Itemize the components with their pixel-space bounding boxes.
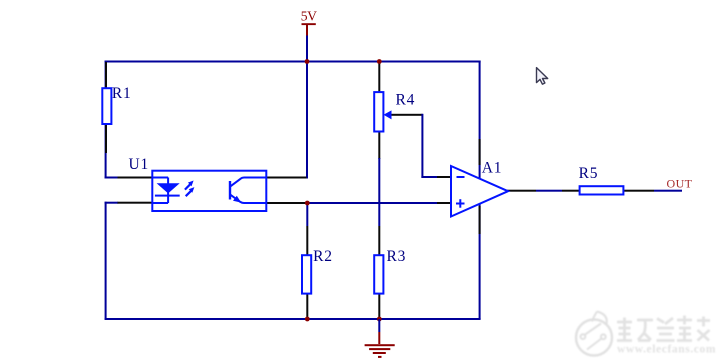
junction dot at 5V / top rail: [305, 59, 310, 64]
svg-text:5V: 5V: [301, 9, 317, 24]
watermark logo circle: [576, 312, 612, 356]
wire minus input horizontal: [421, 176, 437, 178]
resistor R1: [102, 88, 111, 124]
wire 5V stem blue: [306, 36, 308, 62]
pin U1 collector (pin4): [266, 177, 307, 179]
svg-text:R1: R1: [112, 85, 132, 102]
wire left vertical lower (U1 pin2 to bottom rail): [105, 202, 107, 320]
pin op-amp output: [507, 190, 536, 192]
pin R3 top: [378, 226, 380, 256]
wire U1 pin1 horizontal stub: [105, 177, 119, 179]
resistor R3: [374, 255, 383, 293]
ground bar 4: [378, 356, 382, 358]
op-amp minus sign: [457, 176, 465, 178]
watermark logo trace down: [587, 339, 602, 350]
LED light arrow 1: [185, 181, 194, 190]
svg-text:R5: R5: [579, 165, 599, 182]
pin U1 anode (pin1): [118, 177, 154, 179]
mouse cursor: [537, 68, 548, 85]
watermark logo node left: [581, 334, 586, 339]
pin op-amp V+ (top power pin): [479, 139, 481, 165]
pin op-amp V- (bottom power pin): [479, 206, 481, 234]
watermark logo leaf: [592, 312, 607, 325]
ground bar 2: [369, 348, 390, 350]
svg-text:R2: R2: [313, 248, 333, 265]
wire left vertical upper (top rail to R1): [105, 61, 107, 179]
power 5V stem red: [306, 25, 308, 36]
wire 5V column down to U1 collector: [306, 61, 308, 179]
svg-text:OUT: OUT: [667, 177, 693, 191]
pin R4 top: [378, 62, 380, 93]
ground bar 1: [365, 344, 395, 346]
wire output to R5: [536, 190, 562, 192]
wire plus-input net horizontal: [307, 202, 437, 204]
wire top horizontal: [105, 61, 481, 63]
LED light arrow 2: [186, 187, 195, 196]
wiper arrow of R4: [384, 110, 392, 119]
wire U1 pin2 horizontal stub: [105, 202, 119, 204]
LED triangle: [157, 183, 180, 193]
pin R2 top: [306, 226, 308, 256]
svg-text:R4: R4: [396, 92, 416, 109]
pin R1 top: [105, 62, 107, 89]
phototransistor base bar: [229, 181, 231, 200]
power 5V bar: [302, 23, 316, 25]
wire R5 to OUT: [654, 190, 682, 192]
pin R2 bottom: [306, 293, 308, 319]
LED anode lead: [152, 178, 168, 204]
svg-text:U1: U1: [129, 156, 150, 173]
wire R2 top from junction: [306, 203, 308, 226]
resistor R2: [302, 255, 311, 293]
junction dot at R4 / top rail: [377, 59, 382, 64]
wire R4 to R3 vertical: [378, 158, 380, 226]
op-amp A1 triangle: [451, 166, 508, 217]
watermark logo node right: [601, 334, 606, 339]
wire right vertical (op-amp supply column): [479, 61, 481, 320]
pin R5 left: [562, 190, 580, 192]
pin op-amp minus stub: [437, 176, 452, 178]
pin R3 bottom: [378, 293, 380, 319]
watermark chinese characters: [617, 316, 710, 341]
resistor R5: [580, 186, 624, 194]
watermark logo trace up: [585, 324, 602, 335]
pin R5 right: [623, 190, 654, 192]
ground bar 3: [373, 352, 386, 354]
pin U1 emitter (pin3): [266, 202, 307, 204]
phototransistor emitter: [230, 194, 266, 203]
junction dot at emitter / plus net: [305, 201, 310, 206]
LED cathode bar: [155, 195, 180, 197]
wire bottom horizontal: [105, 318, 481, 320]
svg-text:R3: R3: [387, 248, 407, 265]
svg-text:www.elecfans.com: www.elecfans.com: [617, 344, 716, 356]
resistor R4 (pot body): [374, 92, 383, 131]
ground stem red: [378, 332, 380, 344]
op-amp plus sign: [456, 203, 465, 205]
wire wiper down to minus input: [421, 114, 423, 178]
optocoupler U1 box: [152, 171, 266, 211]
phototransistor emitter arrow: [233, 196, 241, 203]
junction dot at R3-ground / bottom rail: [377, 317, 382, 322]
pin R4 wiper horizontal: [390, 114, 423, 116]
ground stem blue: [378, 319, 380, 332]
junction dot at R2 / bottom rail: [305, 317, 310, 322]
pin op-amp plus stub: [437, 202, 452, 204]
svg-text:A1: A1: [482, 159, 503, 176]
phototransistor collector: [230, 178, 266, 187]
pin R1 bottom: [105, 123, 107, 153]
pin U1 cathode (pin2): [118, 202, 154, 204]
pin R4 bottom: [378, 131, 380, 159]
